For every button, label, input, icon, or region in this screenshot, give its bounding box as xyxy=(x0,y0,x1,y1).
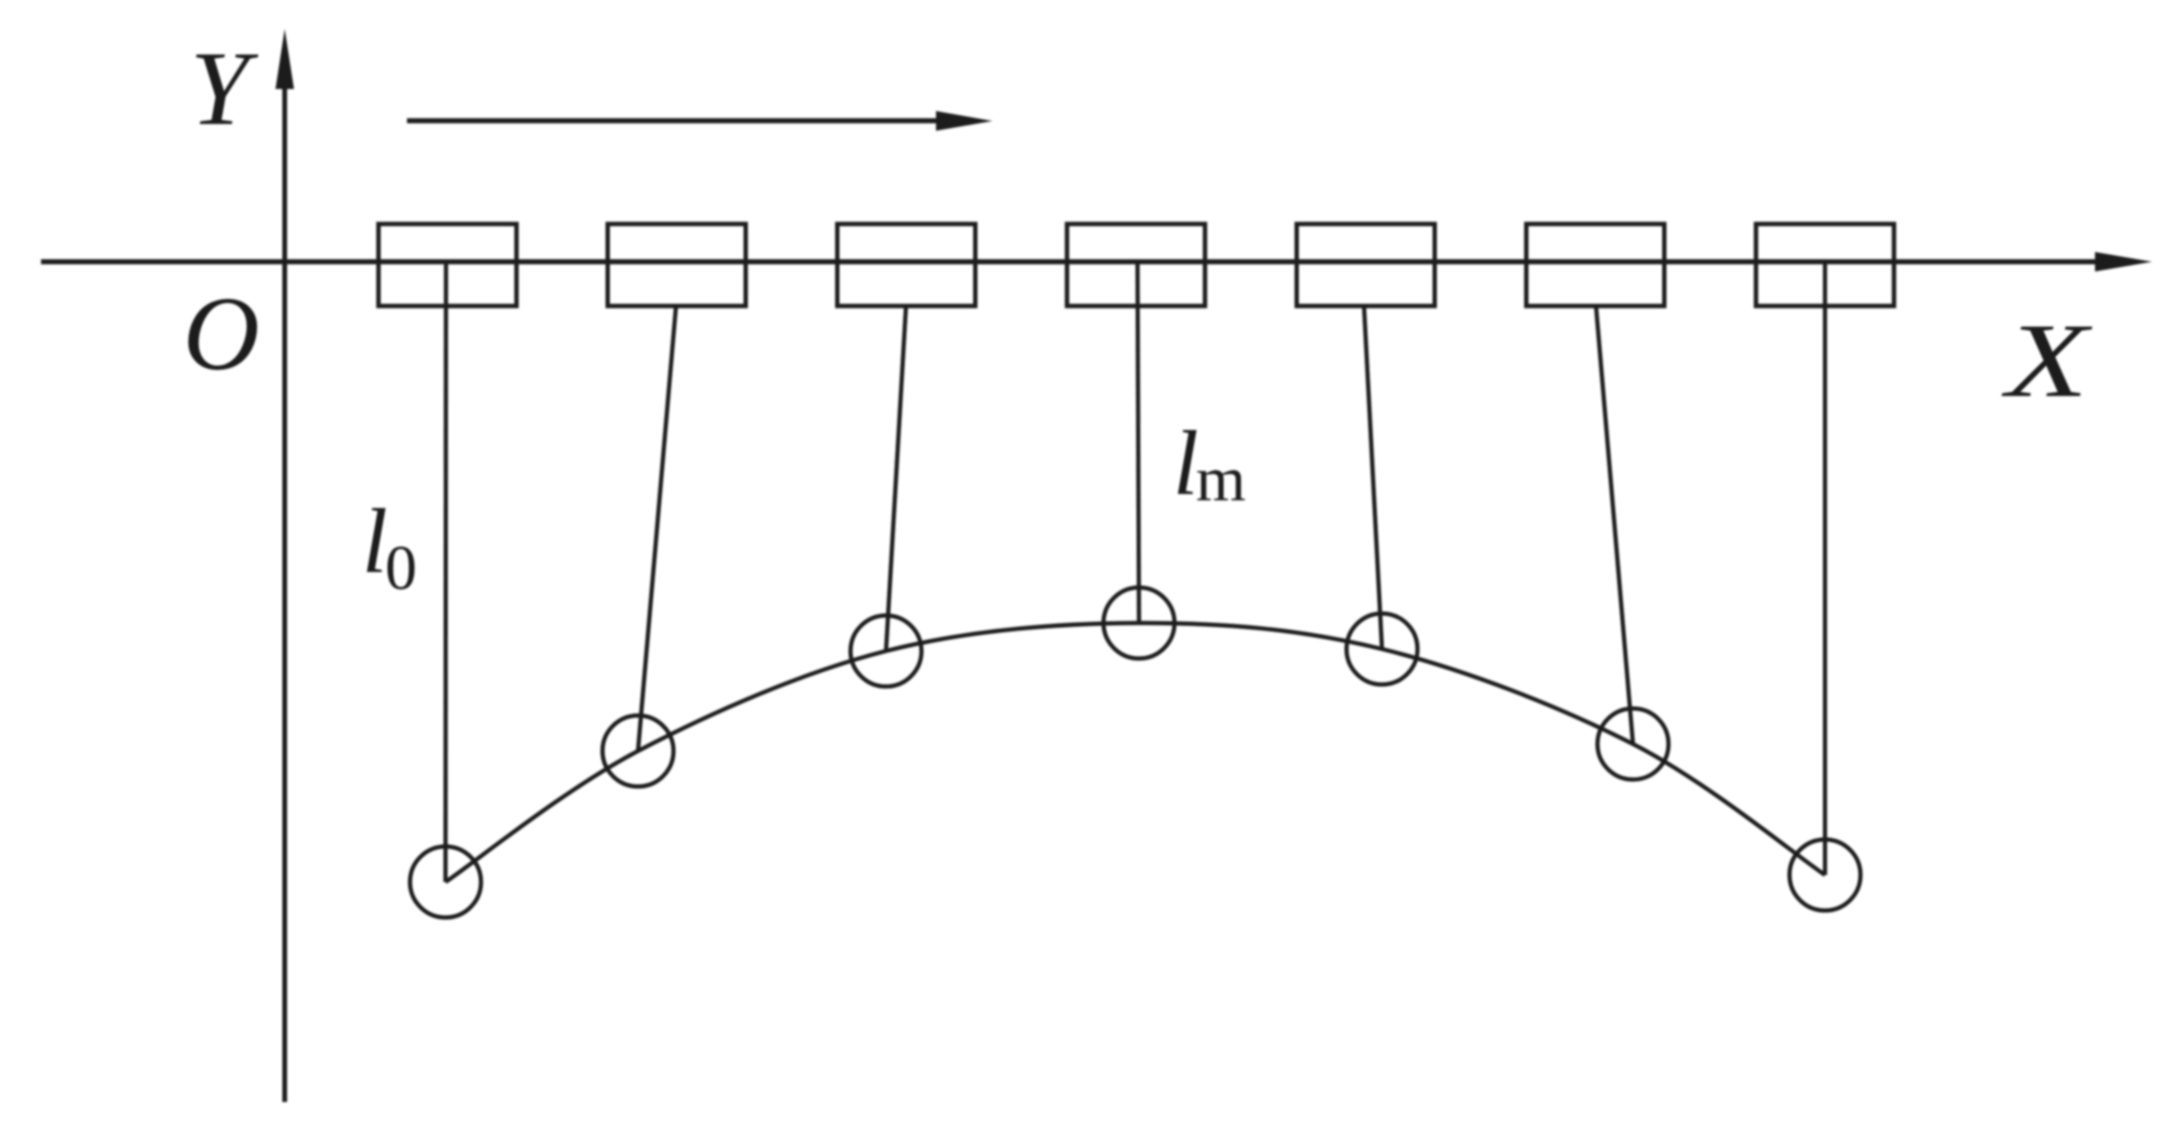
string 6 xyxy=(1596,306,1633,744)
bob 6 xyxy=(1598,709,1669,780)
string 3 xyxy=(886,306,906,651)
cart 1 xyxy=(379,224,517,306)
string 1 xyxy=(443,262,448,882)
svg-text:l: l xyxy=(1173,412,1199,514)
X axis arrowhead xyxy=(2095,252,2152,272)
bob 7 xyxy=(1790,840,1861,911)
wave curve through bobs xyxy=(446,623,1826,882)
string 2 xyxy=(638,306,676,751)
cart 7 xyxy=(1756,224,1894,306)
string 5 xyxy=(1364,306,1382,649)
cart 4 xyxy=(1067,224,1205,306)
string 7 xyxy=(1823,262,1827,875)
bob 1 xyxy=(410,847,481,918)
string 4 xyxy=(1138,262,1140,623)
bob 4 xyxy=(1104,588,1175,659)
Y axis arrowhead xyxy=(276,29,295,89)
velocity arrow xyxy=(407,118,941,123)
bob 5 xyxy=(1347,614,1418,685)
velocity arrowhead xyxy=(936,111,993,131)
svg-text:Y: Y xyxy=(190,30,259,147)
svg-text:m: m xyxy=(1196,443,1246,514)
svg-text:X: X xyxy=(2001,302,2093,419)
cart 5 xyxy=(1297,224,1435,306)
Y axis xyxy=(282,86,287,1102)
svg-text:O: O xyxy=(183,275,260,392)
cart 3 xyxy=(837,224,975,306)
bob 2 xyxy=(603,716,674,787)
cart 6 xyxy=(1526,224,1664,306)
cart 2 xyxy=(608,224,746,306)
svg-text:0: 0 xyxy=(385,532,417,603)
X axis xyxy=(41,259,2100,264)
svg-text:l: l xyxy=(362,490,388,592)
bob 3 xyxy=(851,616,922,687)
